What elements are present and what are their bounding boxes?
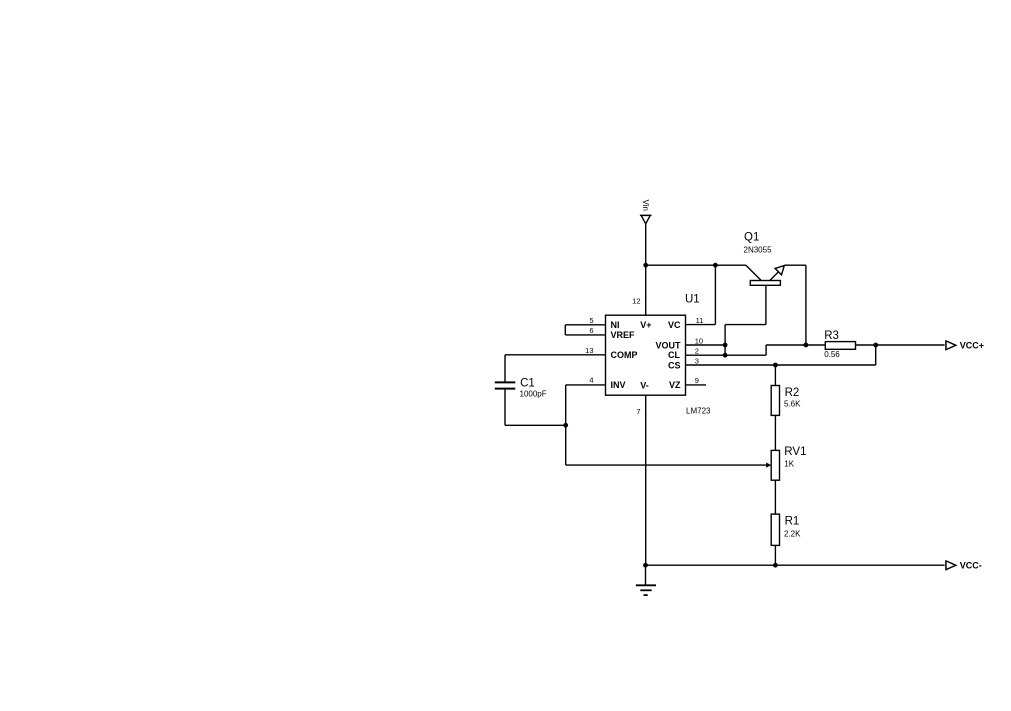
svg-text:V-: V- bbox=[640, 380, 649, 390]
wire NI-VREF jumper vertical bbox=[564, 325, 566, 335]
wire C1 bottom horizontal bbox=[505, 424, 566, 426]
wire node to R3 bbox=[806, 344, 825, 346]
pin 9 VZ stub bbox=[686, 384, 707, 386]
svg-text:5: 5 bbox=[589, 316, 593, 325]
pin 10 VOUT stub bbox=[686, 344, 726, 346]
svg-text:LM723: LM723 bbox=[686, 406, 711, 415]
junction R3/VCC+ bbox=[873, 343, 878, 348]
junction VOUT/base bbox=[723, 343, 728, 348]
pin 6 VREF stub bbox=[565, 334, 605, 336]
svg-text:RV1: RV1 bbox=[784, 446, 806, 458]
wire top rail Vin to VC node bbox=[646, 264, 716, 266]
pin 7 V- wire bbox=[645, 395, 647, 565]
wire Q1 emitter vertical bbox=[805, 265, 807, 345]
svg-text:12: 12 bbox=[632, 296, 640, 305]
pin 12 V+ wire bbox=[645, 265, 647, 315]
pin 5 NI stub bbox=[565, 324, 605, 326]
IC U1 body bbox=[606, 315, 686, 395]
svg-text:2N3055: 2N3055 bbox=[744, 246, 773, 255]
wire CL jog up bbox=[765, 345, 767, 355]
svg-text:CS: CS bbox=[668, 361, 681, 371]
svg-text:C1: C1 bbox=[520, 377, 535, 389]
junction at Vin / V+ bbox=[643, 263, 648, 268]
wire bottom rail bbox=[646, 564, 945, 566]
svg-text:INV: INV bbox=[611, 380, 626, 390]
wire C1 bottom vertical bbox=[504, 389, 506, 426]
svg-text:13: 13 bbox=[585, 346, 593, 355]
svg-text:VC: VC bbox=[668, 320, 681, 330]
pin 3 CS wire bbox=[686, 364, 876, 366]
capacitor C1 bbox=[495, 382, 516, 388]
svg-text:6: 6 bbox=[589, 326, 593, 335]
svg-text:VCC-: VCC- bbox=[960, 560, 982, 570]
node Vin port symbol bbox=[640, 215, 652, 223]
wire R3 to VCC+ node bbox=[856, 344, 876, 346]
svg-text:V+: V+ bbox=[640, 320, 651, 330]
svg-text:VZ: VZ bbox=[669, 380, 681, 390]
wire Q1 base down to VOUT bbox=[724, 325, 726, 345]
wire VC stub pin 11 bbox=[686, 324, 716, 326]
potentiometer RV1 bbox=[771, 450, 779, 480]
resistor R1 bbox=[771, 514, 779, 545]
svg-text:10: 10 bbox=[695, 336, 703, 345]
wire VOUT to CL vertical bbox=[724, 345, 726, 355]
junction INV node bbox=[563, 423, 568, 428]
junction R1/rail bbox=[773, 563, 778, 568]
junction emitter/R3 bbox=[804, 343, 809, 348]
resistor R3 bbox=[825, 342, 855, 350]
svg-text:Q1: Q1 bbox=[744, 232, 759, 244]
svg-text:COMP: COMP bbox=[611, 350, 638, 360]
svg-text:4: 4 bbox=[589, 376, 593, 385]
svg-text:3: 3 bbox=[695, 356, 699, 365]
svg-text:U1: U1 bbox=[685, 294, 700, 306]
svg-text:11: 11 bbox=[696, 316, 704, 325]
wire top rail to Q1 collector bbox=[715, 264, 746, 266]
svg-text:9: 9 bbox=[695, 376, 699, 385]
wire INV vertical bbox=[565, 385, 567, 425]
wire Q1 base horizontal bbox=[725, 324, 766, 326]
svg-text:5.6K: 5.6K bbox=[784, 399, 801, 408]
svg-text:VOUT: VOUT bbox=[655, 341, 681, 351]
wire C1 top vertical bbox=[504, 355, 506, 383]
resistor R2 bbox=[771, 386, 779, 416]
junction CL bbox=[723, 353, 728, 358]
svg-text:Vin: Vin bbox=[641, 200, 650, 211]
wire CL jog right bbox=[725, 354, 766, 356]
svg-text:0.56: 0.56 bbox=[824, 350, 840, 359]
junction ground bbox=[643, 563, 648, 568]
junction at VC rail bbox=[713, 263, 718, 268]
svg-text:7: 7 bbox=[636, 407, 640, 416]
svg-text:VREF: VREF bbox=[611, 330, 636, 340]
ground bbox=[636, 565, 656, 595]
svg-text:VCC+: VCC+ bbox=[960, 340, 984, 350]
wire R1 bottom to rail bbox=[774, 545, 776, 565]
wire CS up to R3 right node bbox=[875, 345, 877, 365]
wire RV1 bottom to R1 top bbox=[774, 480, 776, 514]
svg-text:R2: R2 bbox=[785, 387, 800, 399]
junction CS/R2 bbox=[773, 363, 778, 368]
svg-text:2: 2 bbox=[695, 347, 699, 356]
svg-text:R3: R3 bbox=[824, 330, 839, 342]
svg-text:2.2K: 2.2K bbox=[784, 529, 801, 538]
svg-text:1000pF: 1000pF bbox=[520, 389, 547, 398]
wire VC vertical bbox=[714, 265, 716, 324]
pin 13 COMP wire to C1 bbox=[505, 354, 606, 356]
node VCC- port symbol bbox=[946, 561, 956, 570]
wire INV node down bbox=[565, 425, 567, 465]
svg-text:CL: CL bbox=[668, 350, 680, 360]
pin 2 CL stub bbox=[686, 354, 726, 356]
svg-text:1K: 1K bbox=[784, 460, 794, 469]
wire CL to emitter node bbox=[766, 344, 806, 346]
svg-text:NI: NI bbox=[611, 320, 620, 330]
wire Vin vertical bbox=[645, 224, 647, 265]
wire CS node to R2 top bbox=[774, 365, 776, 386]
node VCC+ port symbol bbox=[946, 341, 956, 350]
svg-text:R1: R1 bbox=[785, 515, 800, 527]
transistor Q1 bbox=[746, 265, 806, 324]
wire to VCC+ port bbox=[876, 344, 945, 346]
RV1 wiper arrow bbox=[766, 463, 771, 468]
wire R2 bottom to RV1 top bbox=[774, 415, 776, 450]
wire RV1 wiper horizontal bbox=[566, 464, 768, 466]
pin 4 INV wire bbox=[566, 384, 606, 386]
